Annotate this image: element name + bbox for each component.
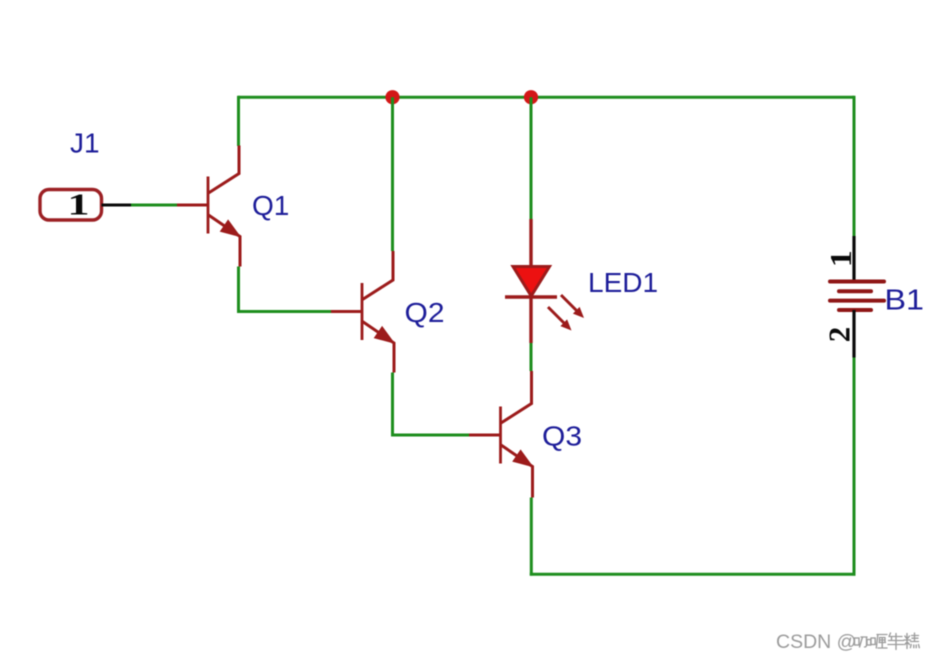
watermark CJK glyphs (855, 633, 920, 650)
transistor Q1 (177, 146, 240, 267)
wire J1 to Q1 base green segment (130, 204, 178, 207)
wire left vertical to Q1 collector (237, 96, 240, 146)
svg-text:1: 1 (823, 250, 858, 267)
svg-text:2: 2 (822, 327, 857, 343)
wire Q2 emitter down (391, 373, 394, 437)
wire Q1 emitter down (237, 267, 240, 314)
wire bottom horizontal rail (530, 573, 856, 576)
svg-text:1: 1 (68, 187, 90, 222)
wire Q3 emitter down to bottom rail (530, 498, 533, 576)
svg-text:J1: J1 (70, 128, 100, 159)
wire right vertical lower from battery pin 2 (853, 357, 856, 576)
wire LED cathode to Q3 collector (530, 343, 533, 371)
wire LED anode vertical (530, 97, 533, 219)
wire Q1 emitter to Q2 base horizontal (237, 310, 331, 313)
wire top horizontal net VCC (238, 96, 854, 99)
wire right vertical upper to battery pin 1 (853, 96, 856, 237)
svg-text:LED1: LED1 (588, 267, 658, 298)
junction dot at Q2 collector column (385, 90, 399, 104)
wire Q2 emitter to Q3 base horizontal (391, 434, 469, 437)
connector J1 (40, 190, 131, 221)
wire Q2 collector vertical (391, 97, 394, 251)
battery B1 (830, 236, 884, 358)
LED LED1 (505, 219, 584, 343)
transistor Q3 (469, 371, 533, 498)
svg-text:CSDN @: CSDN @ (776, 631, 856, 653)
svg-text:Q1: Q1 (252, 190, 289, 221)
transistor Q2 (331, 251, 394, 373)
junction dot at LED column (524, 90, 538, 104)
svg-text:Q2: Q2 (405, 297, 445, 328)
svg-text:Q3: Q3 (542, 421, 582, 452)
svg-text:B1: B1 (885, 285, 925, 317)
